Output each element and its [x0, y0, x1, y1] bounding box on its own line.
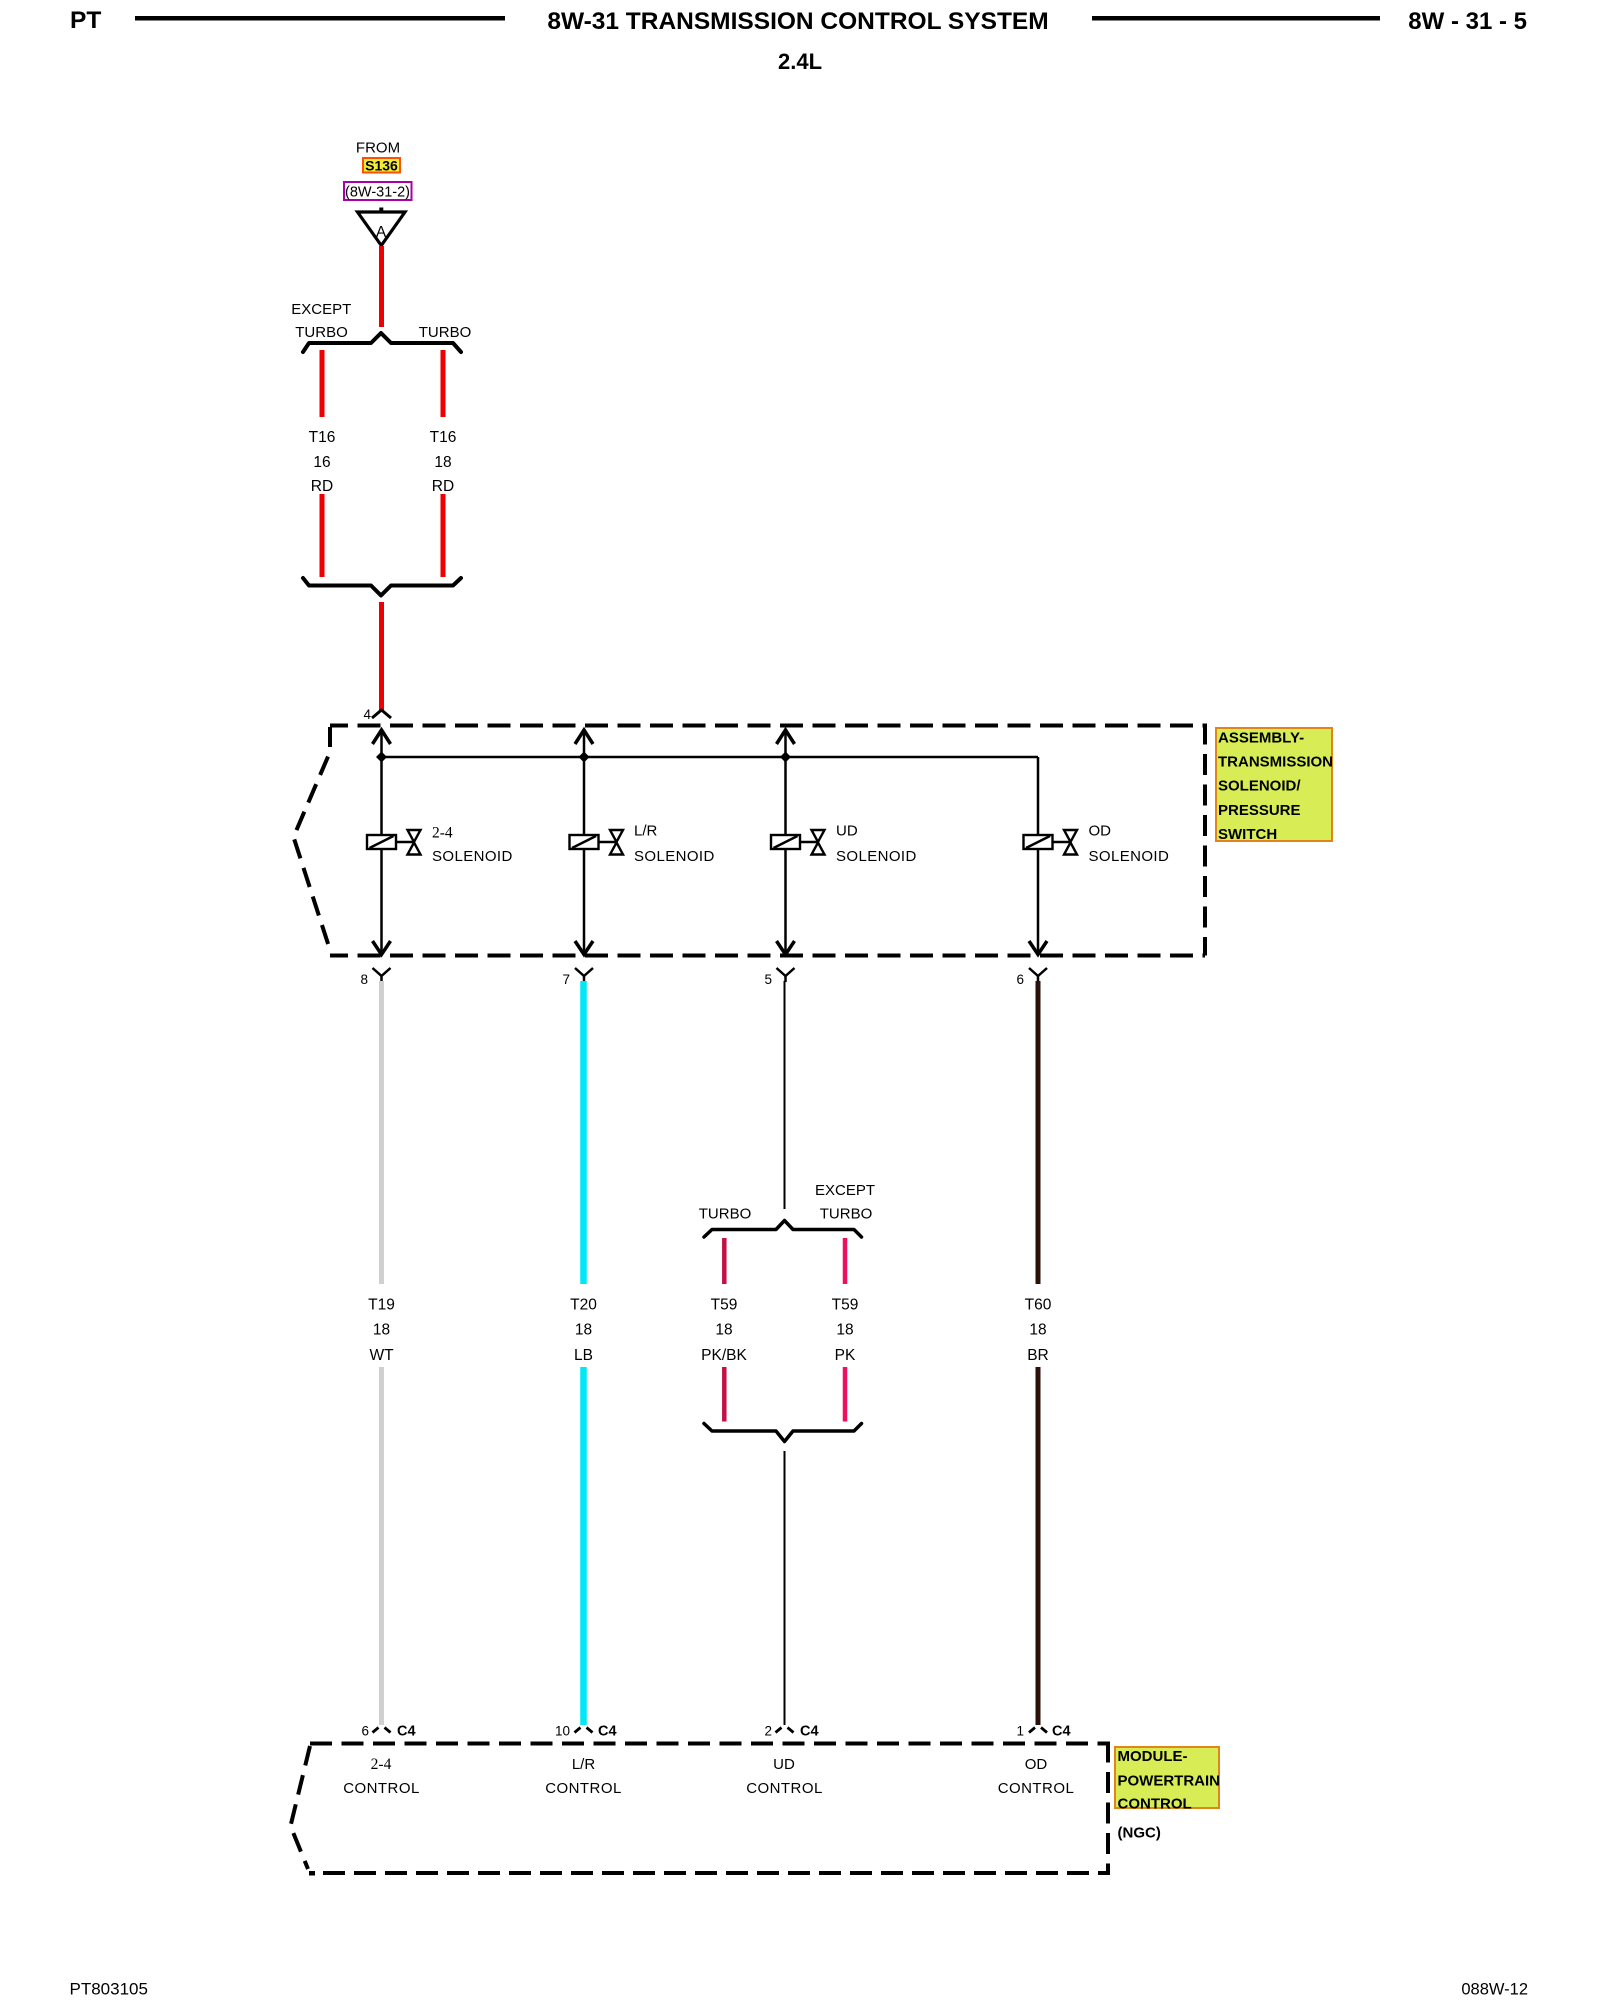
svg-text:UD: UD [773, 1756, 795, 1773]
svg-text:MODULE-: MODULE- [1118, 1748, 1188, 1765]
svg-text:UD: UD [836, 823, 858, 840]
svg-text:2.4L: 2.4L [778, 49, 822, 74]
svg-text:RD: RD [311, 478, 333, 495]
svg-text:T16: T16 [309, 429, 336, 446]
svg-text:CONTROL: CONTROL [1118, 1796, 1192, 1813]
svg-text:S136: S136 [365, 158, 398, 174]
svg-text:TURBO: TURBO [419, 324, 472, 341]
svg-text:8W - 31 - 5: 8W - 31 - 5 [1408, 8, 1527, 35]
svg-text:2: 2 [764, 1724, 772, 1739]
svg-text:T19: T19 [368, 1297, 395, 1314]
svg-text:TURBO: TURBO [295, 324, 348, 341]
svg-text:C4: C4 [397, 1724, 416, 1740]
svg-text:6: 6 [1016, 972, 1024, 987]
svg-text:2-4: 2-4 [371, 1756, 392, 1773]
svg-text:8W-31 TRANSMISSION CONTROL SYS: 8W-31 TRANSMISSION CONTROL SYSTEM [547, 8, 1048, 35]
svg-text:SOLENOID/: SOLENOID/ [1218, 778, 1301, 795]
svg-text:4: 4 [363, 707, 371, 722]
svg-text:(NGC): (NGC) [1118, 1825, 1161, 1842]
svg-text:18: 18 [373, 1322, 390, 1339]
svg-text:TURBO: TURBO [699, 1206, 752, 1223]
svg-text:7: 7 [562, 972, 570, 987]
svg-text:T59: T59 [711, 1297, 738, 1314]
svg-text:SOLENOID: SOLENOID [634, 848, 715, 865]
svg-text:1: 1 [1016, 1724, 1024, 1739]
svg-text:OD: OD [1089, 823, 1112, 840]
svg-text:RD: RD [432, 478, 454, 495]
svg-text:18: 18 [1029, 1322, 1046, 1339]
svg-text:ASSEMBLY-: ASSEMBLY- [1218, 730, 1304, 747]
svg-text:18: 18 [836, 1322, 853, 1339]
svg-text:CONTROL: CONTROL [746, 1780, 823, 1797]
svg-text:C4: C4 [800, 1724, 819, 1740]
svg-text:8: 8 [360, 972, 368, 987]
svg-text:L/R: L/R [572, 1756, 596, 1773]
svg-text:5: 5 [764, 972, 772, 987]
svg-text:C4: C4 [598, 1724, 617, 1740]
svg-text:18: 18 [715, 1322, 732, 1339]
svg-text:2-4: 2-4 [432, 825, 453, 842]
svg-text:CONTROL: CONTROL [343, 1780, 420, 1797]
svg-text:10: 10 [555, 1724, 570, 1739]
svg-text:CONTROL: CONTROL [545, 1780, 622, 1797]
svg-text:LB: LB [574, 1347, 593, 1364]
svg-text:L/R: L/R [634, 823, 658, 840]
svg-text:PT803105: PT803105 [70, 1980, 148, 1999]
svg-text:WT: WT [369, 1347, 394, 1364]
svg-text:18: 18 [434, 454, 451, 471]
svg-text:088W-12: 088W-12 [1461, 1981, 1528, 1999]
svg-text:PK/BK: PK/BK [701, 1347, 747, 1364]
svg-text:SWITCH: SWITCH [1218, 826, 1277, 843]
svg-text:FROM: FROM [356, 140, 400, 157]
svg-text:POWERTRAIN: POWERTRAIN [1118, 1773, 1221, 1790]
svg-text:PRESSURE: PRESSURE [1218, 802, 1301, 819]
svg-text:SOLENOID: SOLENOID [432, 848, 513, 865]
svg-text:BR: BR [1027, 1347, 1049, 1364]
svg-text:A: A [376, 224, 387, 241]
svg-text:18: 18 [575, 1322, 592, 1339]
svg-text:PT: PT [70, 7, 101, 34]
svg-text:16: 16 [313, 454, 330, 471]
svg-text:T59: T59 [832, 1297, 859, 1314]
svg-text:EXCEPT: EXCEPT [815, 1182, 875, 1199]
svg-text:OD: OD [1025, 1756, 1048, 1773]
svg-text:SOLENOID: SOLENOID [1089, 848, 1170, 865]
svg-text:SOLENOID: SOLENOID [836, 848, 917, 865]
svg-text:EXCEPT: EXCEPT [291, 301, 351, 318]
svg-text:TURBO: TURBO [820, 1206, 873, 1223]
svg-text:T60: T60 [1025, 1297, 1052, 1314]
svg-text:TRANSMISSION: TRANSMISSION [1218, 754, 1333, 771]
svg-text:T20: T20 [570, 1297, 597, 1314]
svg-text:T16: T16 [430, 429, 457, 446]
svg-text:C4: C4 [1052, 1724, 1071, 1740]
svg-text:PK: PK [835, 1347, 856, 1364]
svg-text:CONTROL: CONTROL [998, 1780, 1075, 1797]
svg-text:(8W-31-2): (8W-31-2) [345, 185, 410, 201]
svg-text:6: 6 [361, 1724, 369, 1739]
